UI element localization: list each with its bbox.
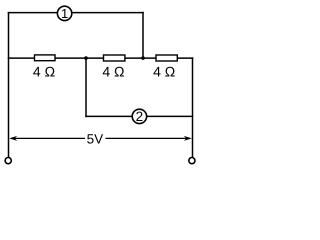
svg-text:5V: 5V xyxy=(87,131,104,146)
svg-text:4 Ω: 4 Ω xyxy=(102,64,124,80)
svg-text:4 Ω: 4 Ω xyxy=(33,64,55,80)
svg-text:1: 1 xyxy=(61,6,68,21)
svg-text:2: 2 xyxy=(136,109,144,124)
svg-text:4 Ω: 4 Ω xyxy=(153,64,175,80)
